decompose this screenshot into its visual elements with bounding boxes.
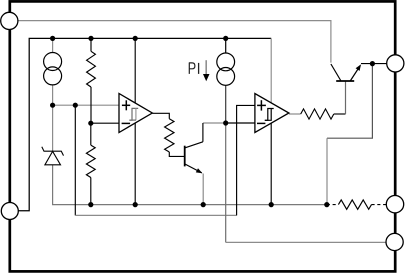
pin 3 (right middle) (386, 196, 403, 213)
wire: current source I1 feed from rail (52, 38, 54, 52)
pin 2 (top right) (387, 55, 404, 72)
op-amp U1 (comparator with hysteresis) (119, 94, 152, 133)
hysteresis symbol U1 (129, 108, 138, 120)
wire: op-amp U1 output to R3 (152, 113, 169, 118)
current source I2 (two overlapping circles) (217, 53, 235, 71)
wire: Q2 emitter to pin2 (361, 63, 387, 65)
wire: Q1 emitter down to bottom bus (202, 174, 204, 205)
wire: node B to op-amp U2 - input (226, 122, 255, 124)
pin 5 (left) (1, 203, 18, 220)
junction dots (50, 36, 55, 41)
op-amp U2 (comparator with hysteresis) (255, 94, 289, 133)
wire: zener anode down to bottom bus corner (53, 165, 327, 205)
label PI with down arrow (189, 63, 195, 74)
resistor R4 (U2 output to Q2 base) (301, 109, 334, 119)
wire: dashed lead from bus to R5 (327, 204, 339, 206)
resistor R2 (below R1) (90, 123, 92, 145)
transistor Q1 (NPN, middle) (184, 146, 186, 167)
wire: node A to zener cathode (52, 105, 54, 151)
wire: I2 bottom to node B (225, 85, 227, 123)
wire: lower bus (bus2) (75, 214, 236, 216)
wire: inner supply rail (left drop to pin5 and top rail) (18, 38, 271, 210)
wire: Q1 collector to node B (203, 122, 226, 124)
pin 1 (top left) (1, 12, 18, 29)
resistor R5 (external, dashed leads, to pin3) (338, 200, 371, 209)
wire: node A sense line down to lower bus (bus2) (74, 105, 76, 215)
wire: I1 bottom to node A (op-amp U1 + input node) (52, 85, 54, 105)
wire: bus2 up to op-amp U2 + input (237, 105, 255, 215)
wire: op-amp U1 - input wire from R1/R2 node (91, 122, 119, 124)
zener diode D1 (42, 147, 64, 156)
wire: op-amp U2 output to R4 (289, 113, 301, 115)
pin 4 (bottom right) (386, 233, 403, 250)
transistor Q2 (NPN, top right) (336, 80, 354, 82)
hysteresis symbol U2 (265, 109, 274, 121)
wire: Q2 base lead up (345, 81, 347, 114)
wire: op-amp U1 + input wire (53, 104, 119, 106)
resistor R1 (top left, from rail) (90, 38, 92, 51)
wire: current source I2 feed from rail (225, 38, 227, 53)
resistor R3 (U1 output to Q1 base) (165, 119, 174, 152)
wire: emitter node down, left, down to bottom bus (327, 64, 372, 139)
current source I1 (two overlapping circles) (44, 53, 62, 71)
wire: through-line from rail corner through op-amp U2 to bottom bus (270, 38, 272, 110)
wire: through-line from rail through op-amp U1 to bottom bus (134, 38, 136, 204)
wire: node B down to pin4 wire (225, 123, 227, 242)
wire: pin1 to Q2 collector (top gray wire) (18, 21, 331, 63)
